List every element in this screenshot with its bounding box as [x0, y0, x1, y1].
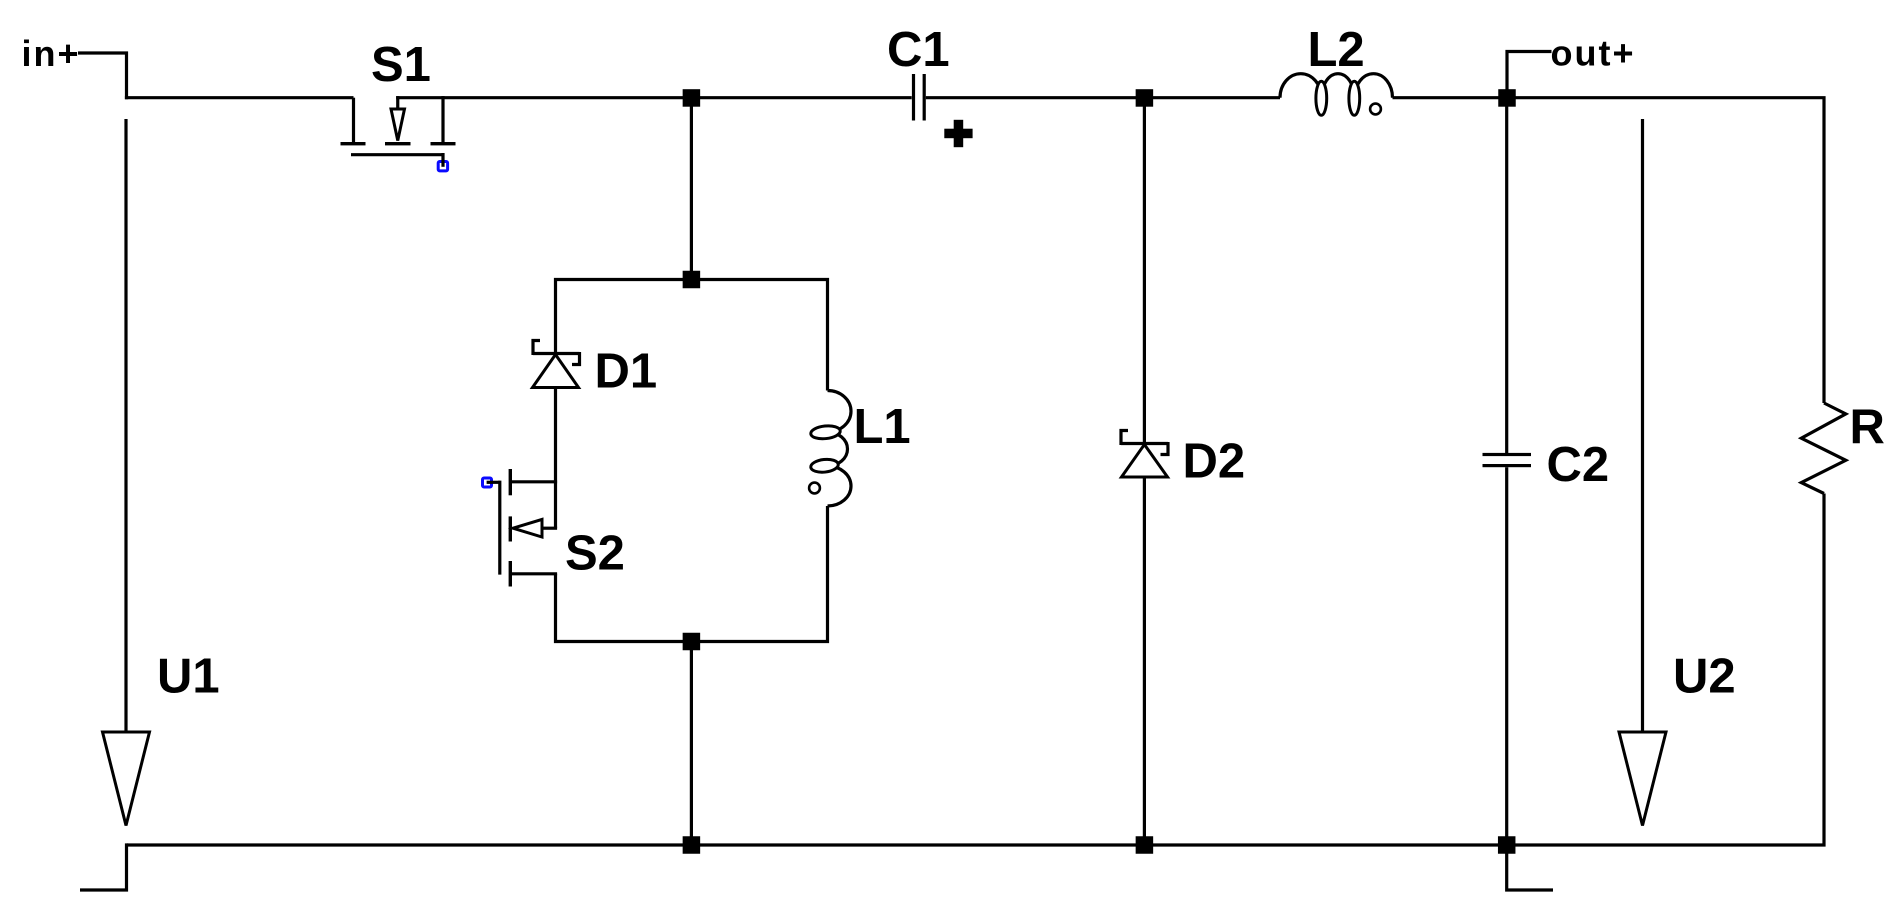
wire box bottom to bottom rail — [690, 642, 693, 846]
wire L2 to node G — [1393, 96, 1508, 99]
L1 petal 2 — [810, 458, 839, 473]
S1 body stub — [396, 96, 399, 110]
D2 cathode hook left — [1121, 431, 1128, 446]
svg-text:C2: C2 — [1547, 438, 1610, 492]
wire out- step — [1507, 845, 1553, 890]
wire right side lower and bottom rail — [127, 494, 1824, 846]
S2 body lead — [542, 527, 557, 530]
svg-text:in+: in+ — [22, 33, 81, 74]
S2 gate terminal square — [483, 478, 492, 487]
wire node E to L2 — [1144, 96, 1280, 99]
diode D1 — [533, 341, 658, 399]
svg-text:S1: S1 — [371, 38, 431, 92]
D1 cathode bar — [533, 352, 580, 355]
S2 gate stub into square — [487, 481, 500, 484]
wire out+ lead — [1507, 52, 1552, 98]
S2 drain lead — [512, 480, 557, 483]
S2 drain pad — [509, 469, 512, 495]
node D (bottom rail / box branch) — [683, 836, 701, 854]
L2 petal 1 — [1316, 81, 1327, 115]
D1 cathode hook left — [533, 341, 540, 356]
node E (top rail / D2 branch) — [1136, 89, 1154, 107]
C2 top plate — [1483, 453, 1532, 456]
wire top rail right segment and right side down — [1507, 98, 1824, 403]
S1 source terminal — [441, 96, 444, 142]
voltage arrow U1 — [103, 119, 220, 826]
L2 petal 2 — [1349, 81, 1360, 115]
U1 arrow line — [124, 119, 127, 732]
S2 gate bar — [498, 481, 501, 575]
D1 cathode hook right — [572, 352, 580, 365]
U2 arrow line — [1641, 119, 1644, 732]
C1 left plate — [912, 74, 915, 121]
D1 anode triangle — [533, 355, 579, 388]
inductor L2 — [1144, 23, 1507, 115]
svg-text:U1: U1 — [157, 650, 220, 704]
wire node E down to D2 cathode — [1143, 98, 1146, 442]
wire C2 down to bottom rail — [1505, 467, 1508, 845]
wire node A down to box top — [690, 98, 693, 280]
node C (box bottom) — [683, 633, 701, 651]
wire in- step — [80, 843, 127, 890]
svg-text:D2: D2 — [1183, 435, 1246, 489]
wire box top and upper side stubs — [556, 280, 828, 391]
wire in+ lead — [78, 53, 127, 99]
U1 arrow head — [103, 732, 150, 826]
svg-text:C1: C1 — [887, 23, 950, 77]
node G (top rail / output branch) — [1498, 89, 1516, 107]
node H (bottom rail / output branch) — [1498, 836, 1516, 854]
wire top rail left segment — [125, 96, 354, 99]
wire node G down to C2 — [1505, 98, 1508, 453]
voltage arrow U2 — [1619, 119, 1736, 826]
S1 middle pad — [385, 142, 411, 145]
node F (bottom rail / D2 branch) — [1136, 836, 1154, 854]
S1 body arrow — [391, 109, 405, 141]
wire D1 anode to S2 drain/body — [554, 388, 557, 529]
S2 middle pad — [509, 516, 512, 541]
S1 drain terminal — [352, 98, 355, 142]
U2 arrow head — [1619, 732, 1666, 826]
svg-text:U2: U2 — [1673, 650, 1736, 704]
S1 gate terminal square — [438, 162, 447, 171]
svg-text:L2: L2 — [1308, 23, 1365, 77]
R zigzag — [1801, 403, 1846, 494]
capacitor C1 — [691, 23, 1144, 147]
svg-text:S2: S2 — [565, 527, 625, 581]
C2 bottom plate — [1483, 464, 1532, 467]
S2 source pad — [509, 561, 512, 587]
S1 drain pad — [341, 142, 366, 145]
S1 gate bar — [351, 153, 445, 156]
C1 polarity plus sign — [944, 129, 972, 139]
inductor L1 — [809, 391, 911, 507]
D2 cathode hook right — [1161, 442, 1169, 455]
wire node A to C1 left plate — [691, 96, 911, 99]
wire D2 anode to bottom rail — [1143, 477, 1146, 845]
wire top rail S1 to node A — [396, 96, 691, 99]
capacitor C2 — [1483, 98, 1610, 845]
node A (top rail / box branch) — [683, 89, 701, 107]
S2 source lead — [512, 572, 557, 575]
L1 petal 1 — [810, 424, 841, 440]
S2 body arrow — [513, 519, 542, 537]
C1 right plate — [923, 74, 926, 121]
transistor S1 — [341, 38, 456, 171]
svg-text:out+: out+ — [1551, 33, 1636, 74]
node B (box top) — [683, 271, 701, 289]
svg-text:L1: L1 — [854, 400, 911, 454]
L2 polarity circle — [1370, 104, 1381, 115]
transistor S2 — [483, 469, 625, 587]
svg-text:D1: D1 — [595, 345, 658, 399]
L2 coil — [1280, 74, 1393, 98]
diode D2 — [1121, 98, 1245, 845]
L1 polarity circle — [809, 483, 820, 494]
wire box bottom and lower side stubs — [556, 506, 828, 642]
S1 source pad — [431, 142, 456, 145]
S1 gate stub into square — [441, 153, 444, 167]
L1 coil — [828, 391, 852, 507]
D2 cathode bar — [1121, 442, 1168, 445]
wire C1 right plate to node E — [926, 96, 1145, 99]
D2 anode triangle — [1122, 445, 1168, 478]
svg-text:R: R — [1850, 401, 1885, 455]
resistor R — [1801, 401, 1885, 494]
